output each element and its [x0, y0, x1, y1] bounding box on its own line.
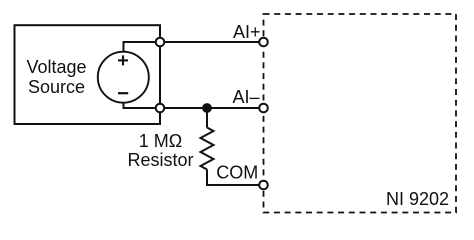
terminal AI+ — [259, 38, 268, 47]
resistor R1 lead top — [206, 108, 208, 128]
wire AI+ — [160, 41, 264, 43]
svg-text:AI–: AI– — [232, 87, 259, 107]
wire from V1 plus to box terminal — [124, 42, 161, 53]
terminal COM — [259, 181, 268, 190]
NI 9202 module dashed box — [264, 14, 457, 213]
voltage source box — [15, 25, 161, 124]
svg-text:1 MΩ: 1 MΩ — [139, 131, 182, 151]
plus sign — [118, 55, 128, 65]
svg-text:COM: COM — [216, 163, 258, 183]
resistor R1 zigzag — [201, 128, 214, 170]
junction node on AI- — [202, 103, 212, 113]
minus sign — [118, 92, 128, 94]
svg-text:Source: Source — [28, 77, 85, 97]
terminal AI- — [259, 104, 268, 113]
svg-text:AI+: AI+ — [233, 22, 261, 42]
svg-text:NI 9202: NI 9202 — [386, 189, 449, 209]
box terminal top — [156, 38, 165, 47]
resistor R1 lead bottom and wire to COM — [207, 170, 264, 186]
wire from V1 minus to box terminal — [124, 102, 161, 108]
voltage source V1 — [98, 52, 149, 103]
box terminal bottom — [156, 104, 165, 113]
svg-text:Voltage: Voltage — [26, 57, 86, 77]
svg-text:Resistor: Resistor — [127, 150, 193, 170]
wire AI- — [160, 107, 264, 109]
